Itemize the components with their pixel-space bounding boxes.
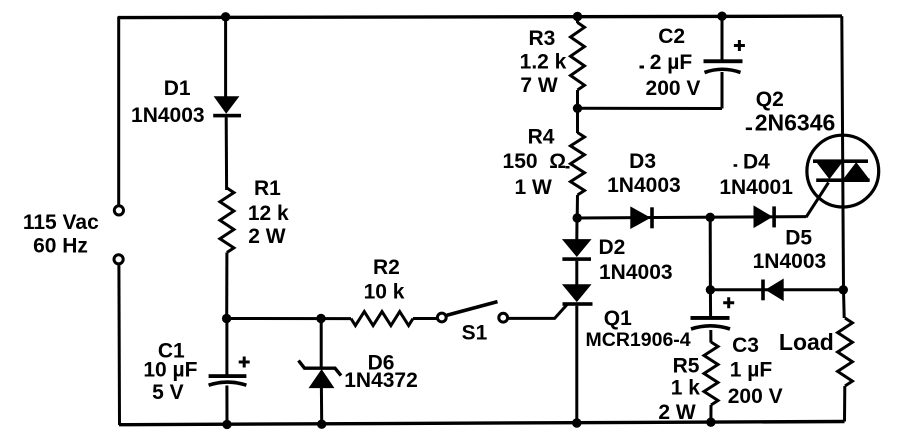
zener D6 — [299, 361, 342, 388]
label C3 value 1 uF — [730, 359, 773, 382]
label R2 value 10 k — [364, 281, 405, 304]
svg-text:D4: D4 — [743, 151, 770, 174]
wire R4 to D3 node — [576, 195, 579, 218]
label D3 — [629, 150, 656, 173]
junction top rail / C2 — [717, 12, 726, 21]
junction Q1 bottom — [572, 418, 581, 427]
capacitor C3 — [691, 316, 731, 329]
wire C3 to R5 — [709, 330, 712, 343]
svg-text:D5: D5 — [785, 226, 812, 249]
junction C1 bottom — [222, 420, 231, 429]
wire top rail — [118, 16, 842, 18]
svg-text:1N4003: 1N4003 — [607, 174, 681, 197]
switch S1 right terminal — [499, 313, 508, 322]
svg-text:1N4001: 1N4001 — [719, 176, 793, 199]
label R3 — [528, 27, 555, 50]
diode D3 — [631, 207, 654, 228]
wire Q1 cathode to bottom rail — [575, 306, 578, 423]
label C2 — [658, 25, 685, 48]
label D6 value 1N4372 — [344, 369, 418, 392]
wire R1 to node — [225, 253, 228, 319]
wire node horizontal — [227, 317, 351, 320]
svg-text:200 V: 200 V — [646, 77, 701, 100]
svg-text:D1: D1 — [164, 77, 191, 100]
wire left vertical (source bottom) — [117, 264, 121, 425]
svg-text:2 W: 2 W — [248, 225, 286, 248]
wire D2 to Q1 — [575, 261, 578, 285]
wire D6 anode — [320, 319, 323, 368]
capacitor C1 — [209, 374, 247, 385]
wire load to bottom rail — [843, 386, 846, 422]
svg-text:5 V: 5 V — [152, 381, 184, 404]
wire D6 to bottom rail — [320, 388, 323, 425]
label C1 value 10 uF — [143, 359, 197, 382]
diode D2 — [562, 240, 591, 261]
label C2 voltage 200 V — [646, 77, 701, 100]
diode D5 — [761, 279, 783, 300]
svg-text:R1: R1 — [254, 177, 281, 200]
svg-text:R4: R4 — [528, 126, 555, 149]
diode D4 — [754, 206, 776, 227]
svg-text:1 k: 1 k — [671, 376, 701, 399]
wire C2 top — [721, 16, 724, 60]
label D2 value 1N4003 — [599, 261, 673, 284]
label R4 value 150 ohm — [503, 150, 570, 173]
resistor Load — [838, 318, 853, 386]
wire D3 node to D5 node — [709, 217, 712, 290]
label Q1 — [604, 307, 632, 330]
triac Q2 circle — [807, 135, 879, 207]
wire C2 bottom — [721, 72, 724, 109]
svg-text:R2: R2 — [373, 256, 400, 279]
svg-text:R5: R5 — [673, 354, 700, 377]
svg-text:200 V: 200 V — [728, 385, 783, 408]
label D4 — [734, 151, 771, 174]
label C3 voltage 200 V — [728, 385, 783, 408]
wire to C3 — [709, 290, 712, 318]
svg-text:S1: S1 — [462, 322, 488, 345]
wire top to R3 — [576, 17, 579, 24]
wire D2 anode — [575, 218, 578, 240]
svg-text:Q1: Q1 — [604, 307, 632, 330]
junction top rail / R3b — [573, 12, 582, 21]
svg-text:1N4003: 1N4003 — [131, 104, 205, 127]
label D4 value 1N4001 — [719, 176, 793, 199]
wire D3/D4 horizontal — [577, 217, 806, 218]
diode D1 — [213, 97, 241, 118]
resistor R4 — [571, 133, 585, 196]
svg-text:2N6346: 2N6346 — [755, 110, 836, 136]
label R5 value 1 k — [671, 376, 701, 399]
resistor R5 — [704, 342, 718, 405]
wire Q2 gate — [806, 183, 829, 218]
label D5 value 1N4003 — [753, 250, 827, 273]
svg-text:150 Ω: 150 Ω — [503, 150, 567, 173]
svg-text:C3: C3 — [732, 334, 759, 357]
resistor R1 — [220, 188, 234, 253]
wire left vertical (source top) — [117, 17, 120, 207]
wire bottom rail — [119, 422, 845, 425]
wire C2 return — [578, 107, 723, 110]
wire C1 to bottom rail — [225, 386, 228, 425]
label R2 — [373, 256, 400, 279]
junction C3/D5 — [706, 285, 715, 294]
label R5 — [673, 354, 700, 377]
svg-text:115 Vac: 115 Vac — [23, 211, 99, 234]
label D2 — [599, 236, 626, 259]
label C1 voltage 5 V — [152, 381, 184, 404]
svg-text:12 k: 12 k — [248, 202, 289, 225]
svg-text:60 Hz: 60 Hz — [33, 235, 88, 258]
label C2 value 2 uF — [640, 51, 693, 74]
label C1 plus — [239, 357, 250, 368]
label R4 — [528, 126, 555, 149]
label S1 — [462, 322, 488, 345]
svg-text:R3: R3 — [528, 27, 555, 50]
switch S1 blade — [447, 302, 498, 316]
wire R3 to junction — [576, 90, 579, 108]
label C3 plus — [723, 297, 734, 308]
svg-text:1 W: 1 W — [515, 176, 553, 199]
junction D6 top — [316, 314, 325, 323]
junction R3/R4/C2 — [573, 104, 582, 113]
svg-text:7 W: 7 W — [520, 74, 558, 97]
label source 60 Hz — [33, 235, 88, 258]
label C1 — [158, 339, 185, 362]
label R4 power 1 W — [515, 176, 553, 199]
svg-text:D2: D2 — [599, 236, 626, 259]
wire R2 to S1 — [413, 317, 437, 320]
junction D3/D4/C3 — [706, 213, 715, 222]
wire node to C1 — [225, 319, 228, 375]
label R1 power 2 W — [248, 225, 286, 248]
label D1 value 1N4003 — [131, 104, 205, 127]
junction top rail / R3 — [221, 12, 230, 21]
svg-text:2 µF: 2 µF — [650, 51, 693, 74]
wire S1 to Q1 gate — [508, 305, 567, 319]
svg-text:2 W: 2 W — [658, 401, 696, 424]
label source 115 Vac — [23, 211, 99, 234]
svg-text:C2: C2 — [658, 25, 685, 48]
svg-text:1.2 k: 1.2 k — [520, 51, 567, 74]
svg-text:Load: Load — [779, 329, 834, 355]
label D5 — [785, 226, 812, 249]
junction D5 / load line — [839, 285, 848, 294]
wire D5 horizontal — [710, 288, 843, 291]
junction D6 bottom — [317, 420, 326, 429]
wire D1 cathode to R1 — [225, 117, 228, 190]
label D3 value 1N4003 — [607, 174, 681, 197]
label D1 — [164, 77, 191, 100]
label C3 — [732, 334, 759, 357]
capacitor C2 — [704, 59, 743, 72]
wire R5 to bottom rail — [709, 405, 712, 422]
label Q1 part MCR1906-4 — [586, 329, 691, 351]
svg-text:1 µF: 1 µF — [730, 359, 773, 382]
svg-text:Q2: Q2 — [756, 88, 784, 111]
svg-text:1N4003: 1N4003 — [753, 250, 827, 273]
label Load — [779, 329, 834, 355]
wire junction to R4 — [576, 108, 579, 133]
node R1/C1/D6/R2 junction — [222, 314, 231, 323]
terminal upper (115 Vac) — [114, 206, 123, 215]
label R5 power 2 W — [658, 401, 696, 424]
wire right vertical — [842, 16, 844, 290]
resistor R2 — [351, 312, 413, 326]
label D6 — [368, 352, 395, 375]
svg-text:1N4372: 1N4372 — [344, 369, 418, 392]
svg-text:MCR1906-4: MCR1906-4 — [586, 329, 691, 351]
wire D1 anode — [224, 17, 227, 98]
junction R4/D3/D2 — [573, 213, 582, 222]
triac Q2 bottom bar MT1 — [816, 178, 870, 182]
label Q2 part 2N6346 — [746, 110, 835, 136]
label Q2 — [756, 88, 784, 111]
junction R5 bottom — [706, 418, 715, 427]
label R3 value 1.2 k — [520, 51, 567, 74]
thyristor Q1 — [563, 285, 593, 306]
triac Q2 top bar MT2 — [813, 159, 868, 163]
label R1 — [254, 177, 281, 200]
wire triac to load — [842, 290, 846, 318]
switch S1 left terminal — [437, 313, 446, 322]
svg-text:D3: D3 — [629, 150, 656, 173]
resistor R3 — [571, 23, 585, 91]
label R3 power 7 W — [520, 74, 558, 97]
label R1 value 12 k — [248, 202, 289, 225]
terminal lower (115 Vac) — [114, 255, 123, 264]
svg-text:10 µF: 10 µF — [143, 359, 197, 382]
svg-text:1N4003: 1N4003 — [599, 261, 673, 284]
triac Q2 right triangle — [844, 163, 868, 178]
svg-text:10 k: 10 k — [364, 281, 405, 304]
triac Q2 left triangle — [818, 163, 842, 178]
label C2 plus — [734, 40, 745, 51]
